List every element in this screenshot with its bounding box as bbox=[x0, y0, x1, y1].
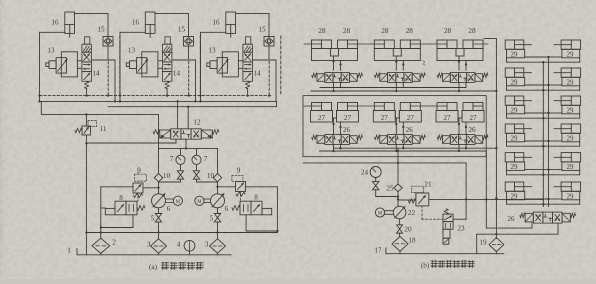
wire 21 out bbox=[429, 198, 544, 200]
column bus B bbox=[542, 63, 544, 207]
svg-text:14: 14 bbox=[92, 70, 100, 78]
svg-text:5: 5 bbox=[210, 215, 214, 223]
valve 8 right bbox=[232, 201, 272, 215]
wire 12 down bbox=[185, 139, 187, 149]
svg-text:M: M bbox=[197, 200, 202, 205]
pilot valve 13 (3) bbox=[207, 52, 239, 77]
svg-text:2: 2 bbox=[112, 239, 116, 247]
wire frame right pump bbox=[246, 187, 279, 233]
tank line 17 bbox=[386, 248, 504, 254]
svg-text:17: 17 bbox=[374, 247, 382, 255]
svg-text:29: 29 bbox=[511, 50, 519, 58]
gauge 4 bbox=[184, 240, 195, 254]
row 3 A wire bbox=[525, 112, 562, 114]
svg-text:29: 29 bbox=[511, 163, 519, 171]
pump 22 bbox=[393, 206, 406, 219]
svg-text:27: 27 bbox=[444, 114, 452, 122]
svg-text:24: 24 bbox=[361, 169, 369, 177]
svg-text:(a): (a) bbox=[149, 263, 158, 271]
filter 3 left bbox=[151, 239, 167, 255]
cylinder pair 28 (3) bbox=[437, 40, 483, 61]
row 2 B wire bbox=[507, 86, 580, 92]
wire yoke to valve (1) bbox=[332, 56, 341, 70]
label 15 (1) bbox=[97, 26, 105, 34]
enclosure frame b bbox=[303, 96, 486, 157]
svg-text:29: 29 bbox=[567, 134, 575, 142]
stack valve 14 (1) bbox=[82, 37, 92, 89]
svg-text:7: 7 bbox=[204, 155, 208, 163]
cylinder pair 27 (1) bbox=[311, 103, 359, 123]
relief valve 21 bbox=[398, 186, 429, 206]
cylinder 16 (1) bbox=[65, 12, 75, 37]
drain dashed (2) bbox=[188, 62, 190, 97]
wire cyl16-1 port to frame bbox=[40, 31, 65, 33]
wire 11 to valve 12 bbox=[86, 139, 176, 143]
label 18 bbox=[408, 237, 416, 245]
wire tier1 valve drains (2) bbox=[395, 83, 403, 93]
stack valve 14 (3) bbox=[243, 37, 253, 89]
wire right line (2) bbox=[195, 60, 197, 101]
svg-text:22: 22 bbox=[408, 209, 416, 217]
svg-text:26: 26 bbox=[343, 126, 351, 134]
svg-text:6: 6 bbox=[167, 205, 171, 213]
label 8 left bbox=[119, 194, 123, 202]
svg-text:29: 29 bbox=[567, 50, 575, 58]
svg-text:29: 29 bbox=[567, 106, 575, 114]
svg-text:27: 27 bbox=[407, 114, 415, 122]
svg-text:26: 26 bbox=[406, 126, 414, 134]
directional valve 26 tier2 (3) bbox=[437, 135, 488, 145]
check valve right bbox=[213, 174, 221, 182]
svg-text:(b): (b) bbox=[421, 261, 430, 269]
wire 9 right bbox=[216, 186, 235, 188]
label 24 bbox=[361, 169, 369, 177]
svg-text:13: 13 bbox=[128, 47, 136, 55]
wire right line (3) bbox=[275, 60, 277, 101]
svg-text:10: 10 bbox=[207, 172, 215, 180]
label 21 bbox=[424, 181, 432, 189]
gauge 24 bbox=[370, 167, 381, 182]
bus line B bbox=[108, 106, 277, 108]
label 11 bbox=[100, 125, 107, 133]
svg-text:27: 27 bbox=[470, 114, 478, 122]
check valve 15 (2) bbox=[184, 37, 194, 47]
wire 12 ports up bbox=[178, 101, 189, 128]
label 5 right bbox=[210, 215, 214, 223]
cylinder 16 (2) bbox=[145, 12, 155, 37]
relief valve 11 bbox=[75, 121, 97, 136]
caption (b) auxiliary hydraulic system bbox=[421, 261, 475, 270]
svg-text:28: 28 bbox=[406, 27, 414, 35]
label 26 (1) bbox=[343, 126, 351, 134]
pump 6 right bbox=[211, 182, 225, 208]
filter 18 bbox=[392, 236, 408, 253]
svg-text:29: 29 bbox=[511, 106, 519, 114]
check valve left bbox=[154, 174, 162, 182]
cylinder pair 29 (row 6) bbox=[505, 182, 580, 200]
valve 8 left bbox=[105, 201, 145, 215]
valve 23 bbox=[443, 199, 466, 244]
motor M right bbox=[195, 196, 211, 205]
label 4 bbox=[177, 241, 181, 249]
wire 14-2 drain bbox=[166, 89, 168, 97]
svg-text:23: 23 bbox=[457, 225, 465, 233]
cylinder pair 27 (2) bbox=[373, 103, 421, 123]
wire yoke2 to valve (1) bbox=[332, 118, 341, 135]
boundary dashed (1) bbox=[119, 36, 121, 96]
label 3 left bbox=[147, 241, 151, 249]
wire 13-14 (1) bbox=[77, 61, 82, 69]
filter 19 bbox=[489, 238, 504, 254]
row 1 B wire bbox=[507, 58, 580, 64]
label 10 right bbox=[207, 172, 215, 180]
svg-text:14: 14 bbox=[253, 70, 261, 78]
label 2 bbox=[112, 239, 116, 247]
svg-text:28: 28 bbox=[381, 27, 389, 35]
check valve 25 bbox=[394, 163, 402, 206]
bus tier1 A bbox=[320, 87, 466, 89]
svg-text:4: 4 bbox=[177, 241, 181, 249]
label 5 left bbox=[151, 215, 155, 223]
valve 5 right bbox=[214, 208, 220, 239]
svg-text:29: 29 bbox=[567, 192, 575, 200]
svg-text:29: 29 bbox=[511, 78, 519, 86]
column bus A bbox=[548, 58, 550, 207]
check valve 15 (3) bbox=[264, 37, 274, 47]
label 15 (2) bbox=[178, 26, 186, 34]
label 9 left bbox=[137, 167, 141, 175]
pump 6 left bbox=[152, 182, 166, 208]
svg-text:9: 9 bbox=[237, 167, 241, 175]
wire cyl16-3 to 15 bbox=[236, 14, 270, 37]
label 14 (2) bbox=[173, 70, 181, 78]
svg-text:11: 11 bbox=[100, 125, 107, 133]
cylinder pair 29 (row 3) bbox=[505, 96, 580, 114]
svg-text:27: 27 bbox=[344, 114, 352, 122]
wire 15-3 to valve 14 bbox=[252, 46, 276, 60]
bus line C bbox=[41, 101, 158, 148]
svg-text:8: 8 bbox=[119, 194, 123, 202]
drain dashed (1) bbox=[107, 62, 109, 97]
wire cyl16-2 port to frame bbox=[120, 31, 145, 33]
wire cyl16-2 to 15 bbox=[155, 14, 189, 37]
wire cyl16-3 port to frame bbox=[201, 31, 226, 33]
wire 11 down bbox=[85, 135, 87, 255]
drain bus dashed bbox=[40, 95, 272, 97]
directional valve 12 bbox=[153, 129, 219, 139]
svg-text:27: 27 bbox=[381, 114, 389, 122]
wire frame-left (1) bbox=[38, 32, 40, 102]
label 10 left bbox=[163, 172, 171, 180]
label 9 right bbox=[237, 167, 241, 175]
svg-text:20: 20 bbox=[404, 226, 412, 234]
svg-text:8: 8 bbox=[254, 194, 258, 202]
svg-text:15: 15 bbox=[178, 26, 186, 34]
relief valve 9 right bbox=[232, 175, 246, 201]
label 20 bbox=[404, 226, 412, 234]
caption (a) main hydraulic system bbox=[149, 262, 203, 271]
gauge 7 right bbox=[192, 148, 201, 164]
labels 29 (row 2) bbox=[511, 78, 575, 86]
svg-text:21: 21 bbox=[424, 181, 432, 189]
wire yoke to valve (2) bbox=[395, 56, 404, 70]
svg-text:13: 13 bbox=[208, 47, 216, 55]
wire 9 left bbox=[143, 187, 160, 189]
labels 28 (1) bbox=[318, 27, 350, 35]
svg-text:5: 5 bbox=[151, 215, 155, 223]
labels 27 (2) bbox=[381, 114, 415, 122]
svg-text:M: M bbox=[378, 212, 383, 217]
label 8 right bbox=[254, 194, 258, 202]
label 13 (1) bbox=[47, 47, 55, 55]
svg-text:29: 29 bbox=[567, 163, 575, 171]
directional valve tier1 (2) bbox=[375, 73, 426, 83]
cylinder pair 29 (row 1) bbox=[505, 40, 580, 58]
svg-text:10: 10 bbox=[163, 172, 171, 180]
suction bus bbox=[86, 231, 277, 233]
row 2 A wire bbox=[525, 84, 562, 86]
row 6 A wire bbox=[525, 198, 562, 200]
svg-text:16: 16 bbox=[212, 19, 220, 27]
row 5 A wire bbox=[525, 168, 562, 170]
stack valve 14 (2) bbox=[162, 37, 172, 89]
svg-text:29: 29 bbox=[511, 192, 519, 200]
label 3 right bbox=[205, 241, 209, 249]
svg-text:29: 29 bbox=[511, 134, 519, 142]
svg-text:29: 29 bbox=[567, 78, 575, 86]
label 6 right bbox=[225, 205, 229, 213]
cylinder pair 27 (3) bbox=[436, 103, 484, 123]
boundary dashed (3) bbox=[280, 36, 282, 96]
labels 29 (row 3) bbox=[511, 106, 575, 114]
svg-text:13: 13 bbox=[47, 47, 55, 55]
return riser bbox=[484, 39, 498, 239]
label 19 bbox=[479, 239, 487, 247]
wire bus to 11 bbox=[85, 114, 87, 126]
wire yoke2 to valve (3) bbox=[458, 118, 467, 135]
row 4 A wire bbox=[525, 140, 562, 142]
tank line 1 bbox=[77, 249, 231, 255]
svg-text:14: 14 bbox=[173, 70, 181, 78]
pilot valve 13 (1) bbox=[46, 52, 78, 77]
row 1 A wire bbox=[525, 56, 562, 58]
svg-text:16: 16 bbox=[51, 19, 59, 27]
drain dashed (3) bbox=[268, 62, 270, 97]
svg-text:28: 28 bbox=[343, 27, 351, 35]
svg-text:12: 12 bbox=[193, 119, 201, 127]
svg-text:15: 15 bbox=[97, 26, 105, 34]
row 5 B wire bbox=[507, 170, 580, 176]
bus pump b bbox=[303, 162, 466, 200]
label 16 (2) bbox=[132, 19, 140, 27]
svg-text:9: 9 bbox=[137, 167, 141, 175]
wire frame left pump bbox=[100, 187, 133, 233]
label 7 right bbox=[204, 155, 208, 163]
wire busP corner bbox=[485, 151, 487, 228]
label 14 (1) bbox=[92, 70, 100, 78]
svg-text:3: 3 bbox=[205, 241, 209, 249]
wire frame-left (3) bbox=[199, 32, 201, 102]
directional valve tier1 (3) bbox=[437, 73, 488, 83]
cylinder pair 29 (row 2) bbox=[505, 68, 580, 86]
labels 29 (row 1) bbox=[511, 50, 575, 58]
labels 27 (3) bbox=[444, 114, 478, 122]
svg-text:25: 25 bbox=[386, 184, 394, 192]
label 7 left bbox=[170, 155, 174, 163]
bus line A bbox=[40, 100, 277, 106]
tier2 rod line bbox=[304, 105, 483, 107]
directional valve 26 tier2 (2) bbox=[375, 135, 426, 145]
svg-text:3: 3 bbox=[147, 241, 151, 249]
svg-text:28: 28 bbox=[318, 27, 326, 35]
label 16 (3) bbox=[212, 19, 220, 27]
cylinder pair 29 (row 4) bbox=[505, 124, 580, 142]
svg-text:28: 28 bbox=[468, 27, 476, 35]
smudge bbox=[423, 61, 426, 66]
svg-text:27: 27 bbox=[318, 114, 326, 122]
labels 29 (row 6) bbox=[511, 192, 575, 200]
wire tier1 valve drains (1) bbox=[332, 83, 340, 93]
label 23 bbox=[457, 225, 465, 233]
cylinder pair 28 (1) bbox=[312, 40, 358, 61]
svg-text:28: 28 bbox=[444, 27, 452, 35]
label 16 (1) bbox=[51, 19, 59, 27]
label 14 (3) bbox=[253, 70, 261, 78]
wire yoke to valve (3) bbox=[458, 56, 467, 70]
label 6 left bbox=[167, 205, 171, 213]
wire 15-1 to valve 14 bbox=[91, 46, 115, 60]
wire 15-2 to valve 14 bbox=[172, 46, 196, 60]
wire 14-3 drain bbox=[246, 89, 248, 97]
svg-text:15: 15 bbox=[258, 26, 266, 34]
wire frame-left (2) bbox=[119, 32, 121, 102]
label 15 (3) bbox=[258, 26, 266, 34]
valve 10 left bbox=[159, 164, 184, 182]
bus tier2 B bbox=[320, 150, 487, 152]
svg-text:26: 26 bbox=[469, 126, 477, 134]
row 4 B wire bbox=[507, 142, 580, 148]
bus tier1 B bbox=[311, 90, 498, 92]
labels 27 (1) bbox=[318, 114, 352, 122]
valve 20 bbox=[397, 219, 403, 237]
directional valve 26 (column) bbox=[520, 212, 576, 223]
motor M 22 bbox=[375, 208, 393, 217]
labels 28 (2) bbox=[381, 27, 413, 35]
label 1 bbox=[67, 247, 71, 255]
labels 28 (3) bbox=[444, 27, 476, 35]
gauge 7 left bbox=[176, 148, 185, 164]
check valve 15 (1) bbox=[103, 37, 113, 47]
wire right line (1) bbox=[114, 60, 116, 101]
label 13 (3) bbox=[208, 47, 216, 55]
manifold line bbox=[159, 148, 218, 173]
label 26 (2) bbox=[406, 126, 414, 134]
wire cyl16-1 to 15 bbox=[75, 14, 109, 37]
wire 26 returns bbox=[477, 223, 558, 254]
cylinder 16 (3) bbox=[226, 12, 236, 37]
labels 29 (row 5) bbox=[511, 163, 575, 171]
label 26 (3) bbox=[469, 126, 477, 134]
valve 10 right bbox=[193, 164, 217, 182]
svg-text:M: M bbox=[176, 200, 181, 205]
row 3 B wire bbox=[507, 114, 580, 120]
wire link buses bbox=[397, 148, 399, 163]
svg-text:19: 19 bbox=[479, 239, 487, 247]
filter 3 right bbox=[210, 239, 226, 255]
valve below 24 bbox=[373, 181, 400, 197]
label 25 bbox=[386, 184, 394, 192]
label 13 (2) bbox=[128, 47, 136, 55]
label 17 bbox=[374, 247, 382, 255]
pilot dashed 21-23 bbox=[422, 206, 443, 219]
wire yoke2 to valve (2) bbox=[395, 118, 404, 135]
svg-text:7: 7 bbox=[170, 155, 174, 163]
svg-text:1: 1 bbox=[67, 247, 71, 255]
labels 29 (row 4) bbox=[511, 134, 575, 142]
tier1 rod line bbox=[304, 43, 488, 45]
valve 5 left bbox=[155, 208, 161, 239]
row 6 B wire bbox=[507, 200, 580, 206]
wire 14-1 drain bbox=[85, 89, 87, 97]
label 22 bbox=[408, 209, 416, 217]
boundary dashed (2) bbox=[199, 36, 201, 96]
svg-text:26: 26 bbox=[508, 215, 516, 223]
svg-text:6: 6 bbox=[225, 205, 229, 213]
svg-text:16: 16 bbox=[132, 19, 140, 27]
wire tier2 valve drains (2) bbox=[395, 145, 404, 153]
filter 2 bbox=[92, 233, 110, 255]
wire 13-14 (3) bbox=[238, 61, 243, 69]
cylinder pair 28 (2) bbox=[374, 40, 420, 61]
svg-text:18: 18 bbox=[408, 237, 416, 245]
wire tier2 valve drains (3) bbox=[458, 145, 467, 153]
wire tier1 valve drains (3) bbox=[458, 83, 466, 93]
bus tier2 A bbox=[334, 147, 498, 149]
directional valve tier1 (1) bbox=[312, 73, 363, 83]
motor M left bbox=[166, 196, 182, 205]
relief valve 9 left bbox=[133, 171, 147, 202]
cylinder pair 29 (row 5) bbox=[505, 153, 580, 171]
pilot valve 13 (2) bbox=[126, 52, 158, 77]
label 26 column bbox=[508, 215, 516, 223]
label 12 bbox=[193, 119, 201, 127]
wire 13-14 (2) bbox=[158, 61, 163, 69]
directional valve 26 tier2 (1) bbox=[312, 135, 363, 145]
wire tier2 valve drains (1) bbox=[332, 145, 341, 153]
